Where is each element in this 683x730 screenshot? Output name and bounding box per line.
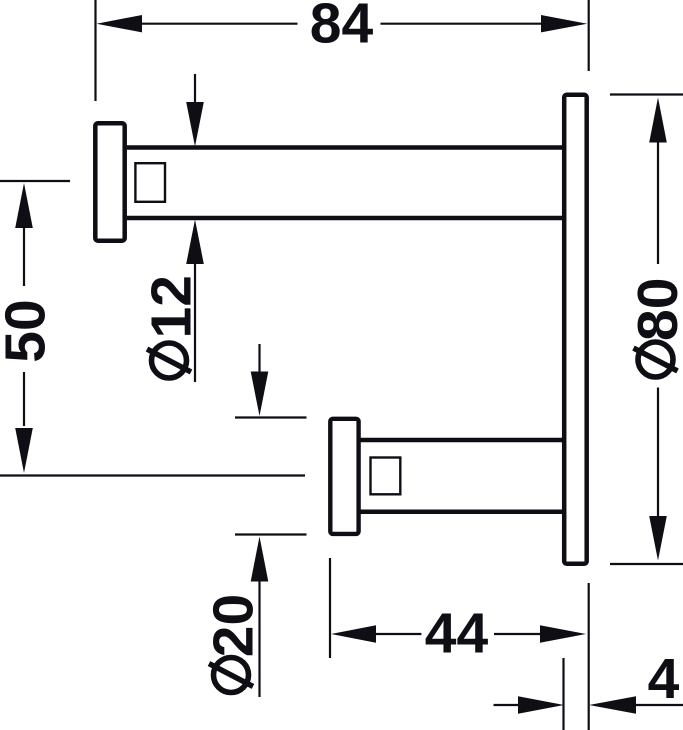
- bottom rod lower outline: [359, 510, 564, 515]
- svg-text:4: 4: [648, 647, 680, 711]
- dim 44 left extension line: [329, 558, 331, 658]
- dim d80 bottom tick: [610, 563, 683, 565]
- dim 44 left arrowhead: [331, 625, 376, 642]
- wall plate: [564, 95, 587, 564]
- dim 50 up arrowhead: [15, 183, 33, 228]
- dim 84 line left segment: [141, 23, 298, 25]
- dim 50 / rod axis line: [0, 474, 305, 476]
- dim 4 right tail: [634, 704, 683, 706]
- svg-text:84: 84: [310, 0, 374, 56]
- dim d20 lower tail: [258, 580, 260, 697]
- dim d20 top tick: [235, 416, 307, 418]
- top rod lower outline: [127, 216, 564, 221]
- top set screw: [135, 163, 165, 202]
- dim d12 upper arrow tail: [194, 74, 196, 104]
- dim d20 down arrowhead: [251, 372, 269, 417]
- dim d20 up arrowhead: [251, 537, 269, 582]
- dim 84 right arrowhead: [541, 15, 587, 32]
- dim 44 right arrowhead: [540, 625, 586, 642]
- dim 4 left extension line: [562, 658, 564, 730]
- dim 84 left arrowhead: [97, 15, 143, 32]
- bottom set screw: [371, 458, 401, 495]
- dim d12 up arrowhead: [186, 220, 204, 265]
- dim 4 left arrowhead: [518, 696, 564, 713]
- label d12 diameter symbol: [147, 343, 191, 378]
- dim d20 bottom tick: [235, 533, 307, 535]
- dim 50 down arrowhead: [15, 428, 33, 473]
- dim 84 left extension line: [94, 0, 96, 101]
- dim 4 right arrowhead: [589, 696, 636, 713]
- svg-text:44: 44: [425, 602, 489, 666]
- dim d80 line upper segment: [657, 141, 659, 264]
- dim 44 line left segment: [374, 633, 421, 635]
- dim d12 lower tail: [194, 262, 196, 382]
- svg-text:80: 80: [626, 278, 683, 341]
- top rod upper outline: [127, 145, 564, 150]
- dim d12 down arrowhead: [186, 102, 204, 147]
- label d80 diameter symbol: [634, 342, 678, 377]
- dim 44 right extension line: [588, 583, 590, 730]
- label d20 diameter symbol: [209, 658, 253, 693]
- dim 50 lower tail: [23, 372, 25, 426]
- bottom rod end cap: [330, 419, 358, 534]
- dim d20 upper arrow tail: [258, 344, 260, 373]
- dim 4 left tail: [494, 704, 520, 706]
- svg-text:20: 20: [202, 594, 266, 657]
- dim 50 upper tail: [23, 226, 25, 286]
- svg-text:12: 12: [140, 275, 204, 338]
- dim 44 line right segment: [494, 633, 541, 635]
- bottom rod upper outline: [359, 438, 564, 443]
- dim d80 up arrowhead: [649, 98, 667, 143]
- dim d80 down arrowhead: [649, 516, 667, 561]
- dim d80 line lower segment: [657, 388, 659, 519]
- dim 50 top tick: [0, 180, 70, 182]
- dim 84 right extension line: [588, 0, 590, 71]
- dim 84 line right segment: [381, 23, 543, 25]
- dim d80 top tick: [610, 93, 683, 95]
- svg-text:50: 50: [0, 299, 58, 362]
- top rod end cap: [95, 123, 124, 240]
